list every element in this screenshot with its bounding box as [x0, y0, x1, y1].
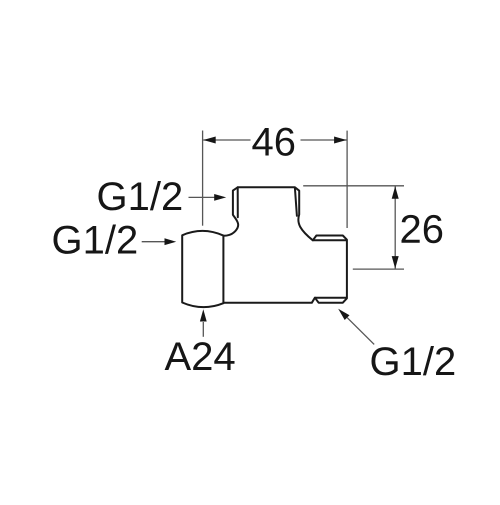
label A24 — [165, 342, 235, 370]
dimension 26 top extension line — [303, 185, 404, 187]
label G1/2 — [99, 181, 182, 210]
dimension 26 line — [394, 186, 396, 268]
right port top thread chamfer line — [313, 239, 346, 241]
dimension 46 left extension line (cylinder centerline) — [202, 131, 204, 226]
arrowhead 46 right — [334, 137, 347, 144]
top port right thread chamfer line — [295, 188, 297, 216]
top port left thread chamfer line — [237, 188, 239, 217]
arrowhead G1/2 top — [214, 194, 226, 201]
dimension 46 right extension line (right port face) — [346, 131, 348, 228]
arrowhead G1/2 left — [165, 238, 177, 245]
arrowhead 46 left — [203, 137, 216, 144]
label G1/2 — [372, 346, 455, 375]
arrowhead 26 down — [392, 256, 399, 269]
label 26 — [402, 215, 443, 243]
leader line A24 — [202, 322, 204, 337]
dimension 46 line right segment — [301, 139, 347, 141]
dimension 26 bottom extension line — [353, 268, 404, 270]
leader line G1/2 top — [189, 196, 216, 198]
leader line G1/2 left — [142, 241, 166, 243]
arrowhead A24 — [200, 309, 207, 321]
arrowhead G1/2 bottom right — [338, 309, 349, 320]
label G1/2 — [54, 225, 137, 254]
leader line G1/2 bottom right — [347, 318, 374, 345]
label 46 — [252, 128, 294, 156]
right port bottom thread chamfer line — [315, 297, 346, 299]
dimension 46 line left segment — [203, 139, 250, 141]
arrowhead 26 up — [392, 186, 399, 199]
top port left outer edge with flare into body — [224, 187, 239, 236]
left cylinder boss A24 — [182, 231, 223, 307]
tee body outline with top port and right port — [223, 187, 347, 302]
